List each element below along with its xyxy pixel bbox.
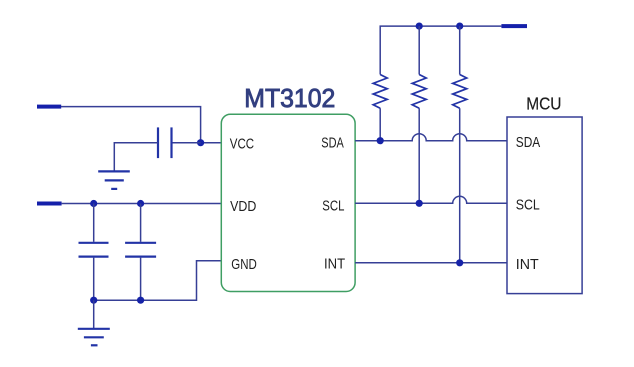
node junction VDD/C2 bbox=[90, 200, 97, 207]
wire: ground bus to GND pin bbox=[94, 261, 222, 300]
wire: VDD to C3 top plate bbox=[140, 204, 142, 242]
node junction bus/C2 bbox=[90, 297, 97, 304]
power bar VCC (top-left) bbox=[37, 105, 61, 109]
svg-text:INT: INT bbox=[516, 257, 539, 273]
svg-text:SDA: SDA bbox=[516, 135, 541, 151]
wire: capacitor C1 right plate to junction bbox=[172, 142, 201, 144]
wire: VDD bar to VDD pin bbox=[62, 203, 222, 205]
wire: VDD to C2 top plate bbox=[93, 204, 95, 242]
top pull-up rail wire bbox=[380, 26, 501, 74]
node junction rail/R3 bbox=[456, 23, 463, 30]
wire: bus to ground symbol bbox=[93, 300, 95, 329]
wire net SDA with crossover hops bbox=[355, 134, 507, 141]
power bar VDD (left) bbox=[37, 202, 62, 206]
wire: VCC bar to junction, down to VCC pin row bbox=[61, 107, 201, 143]
svg-text:GND: GND bbox=[231, 257, 256, 273]
wire: C1 left plate to ground bbox=[114, 143, 158, 172]
resistor R2 (SCL pull-up) bbox=[412, 26, 426, 203]
op-amp-style IC U1 MT3102 body bbox=[221, 114, 355, 291]
node junction SCL/R2 bbox=[416, 200, 423, 207]
svg-text:SDA: SDA bbox=[321, 135, 344, 151]
capacitor C2 (decoupling) bbox=[79, 243, 109, 257]
node junction at VCC pin wire bbox=[197, 139, 204, 146]
ground (below C2) bbox=[78, 329, 110, 346]
wire: junction to VCC pin bbox=[201, 142, 222, 144]
power bar (pull-up rail) bbox=[501, 24, 527, 28]
resistor R1 (SDA pull-up) bbox=[373, 75, 387, 141]
MCU box bbox=[507, 117, 582, 294]
capacitor C1 (coupling cap at VCC) bbox=[158, 127, 172, 158]
svg-text:VCC: VCC bbox=[230, 136, 254, 152]
svg-text:INT: INT bbox=[324, 257, 345, 273]
svg-text:MCU: MCU bbox=[526, 94, 561, 114]
wire net SCL with crossover hop bbox=[355, 196, 507, 203]
wire: C3 bottom plate to ground bus bbox=[140, 258, 142, 301]
wire net INT bbox=[355, 262, 507, 264]
node junction rail/R2 bbox=[416, 23, 423, 30]
wire: C2 bottom plate to ground bus bbox=[93, 258, 95, 301]
node junction bus/C3 bbox=[137, 297, 144, 304]
svg-text:VDD: VDD bbox=[230, 199, 256, 215]
svg-text:MT3102: MT3102 bbox=[244, 83, 335, 113]
node junction VDD/C3 bbox=[137, 200, 144, 207]
node junction INT/R3 bbox=[456, 259, 463, 266]
svg-text:SCL: SCL bbox=[322, 198, 344, 214]
svg-text:SCL: SCL bbox=[516, 198, 540, 214]
resistor R3 (INT pull-up) bbox=[453, 26, 467, 263]
node junction SDA/R1 bbox=[377, 137, 384, 144]
capacitor C3 (decoupling) bbox=[125, 243, 156, 257]
ground (near C1) bbox=[98, 171, 130, 189]
